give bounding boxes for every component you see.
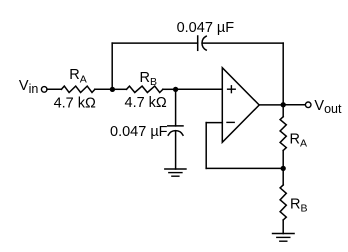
feedback wire down (205, 123, 207, 169)
label RA (input) (69, 67, 87, 85)
svg-text:RA: RA (290, 131, 308, 149)
input terminal Vin (41, 87, 47, 93)
label RB (input) (140, 70, 158, 88)
node A junction (110, 87, 115, 92)
value label 0.047 uF (C2) (110, 124, 168, 140)
wire top left to capacitor C1 (112, 42, 198, 44)
capacitor C1 0.047uF (feedback) (198, 36, 207, 50)
wire node B to op-amp + input (176, 88, 223, 90)
resistor RA (gain, right) (280, 117, 286, 151)
resistor RB (input) (127, 86, 163, 92)
value label 4.7 kOhm (RB) (125, 95, 167, 111)
wire RB to node B (163, 88, 176, 90)
wire node D to Vout terminal (283, 104, 305, 106)
label Vout (314, 98, 342, 116)
svg-text:4.7 kΩ: 4.7 kΩ (125, 95, 167, 111)
op-amp U1 (222, 68, 259, 143)
label RA (gain) (290, 131, 308, 149)
node B junction (173, 87, 178, 92)
svg-text:4.7 kΩ: 4.7 kΩ (54, 96, 96, 112)
value label 0.047 uF (C1) (177, 20, 235, 36)
op-amp - input symbol (227, 121, 234, 123)
wire RB to ground (282, 220, 284, 234)
wire RA to node C (282, 151, 284, 169)
node D junction (output) (281, 102, 286, 107)
resistor RA (input) (61, 86, 95, 92)
output terminal Vout (305, 102, 311, 108)
label RB (gain) (290, 196, 308, 214)
wire Vin terminal to RA (47, 88, 61, 90)
wire node D down to gain resistor RA (282, 105, 284, 117)
wire C2 to ground (175, 131, 177, 169)
svg-text:Vout: Vout (314, 98, 342, 116)
svg-text:Vin: Vin (19, 78, 38, 96)
wire node B down to capacitor C2 (175, 89, 177, 126)
wire C1 to right vertical (202, 42, 283, 44)
ground (bottom right) (273, 234, 295, 242)
value label 4.7 kOhm (RA) (54, 96, 96, 112)
svg-text:RB: RB (140, 70, 158, 88)
label Vin (19, 78, 38, 96)
svg-text:RB: RB (290, 196, 308, 214)
wire node A to RB (112, 88, 126, 90)
svg-text:RA: RA (69, 67, 87, 85)
wire op-amp - input (206, 122, 222, 124)
feedback wire to node C (206, 167, 283, 169)
capacitor C2 0.047uF (shunt) (168, 126, 183, 135)
svg-text:0.047 µF: 0.047 µF (110, 124, 168, 140)
wire right vertical down to output node (282, 43, 284, 105)
wire op-amp output to node D (259, 104, 283, 106)
wire node C down to RB (282, 168, 284, 185)
op-amp + input symbol (228, 86, 236, 93)
node C junction (281, 166, 286, 171)
svg-text:0.047 µF: 0.047 µF (177, 20, 235, 36)
wire node A up to feedback cap (111, 43, 113, 89)
ground (middle) (165, 169, 186, 176)
wire RA to node A (95, 88, 113, 90)
resistor RB (gain, right) (280, 185, 286, 220)
